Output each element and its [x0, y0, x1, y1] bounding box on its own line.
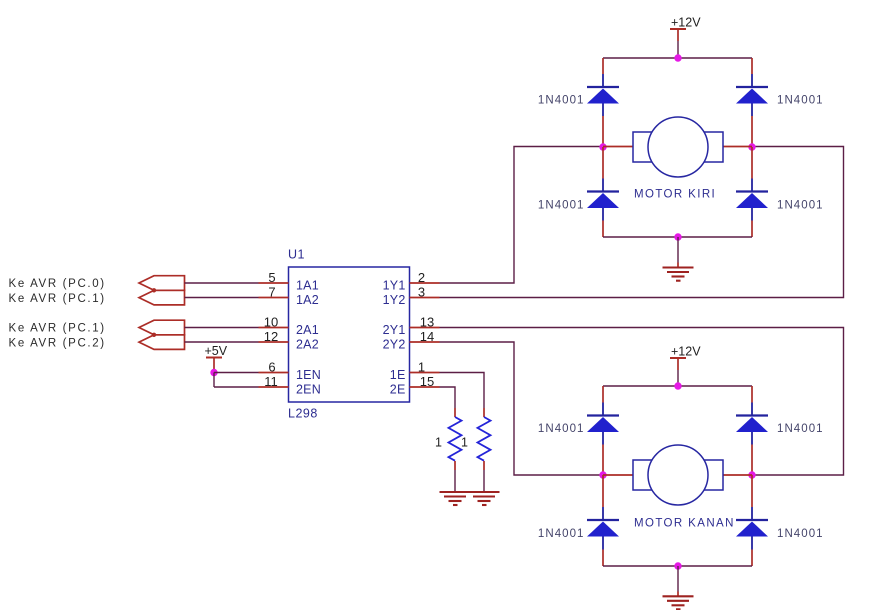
svg-text:Ke AVR (PC.2): Ke AVR (PC.2)	[9, 338, 106, 350]
svg-text:2E: 2E	[390, 383, 406, 397]
wire port to pin 7	[185, 297, 259, 299]
diode D2 1N4001 (kiri upper-right)	[736, 74, 824, 116]
wire bottom rail (kanan)	[603, 565, 752, 567]
wire bottom rail (kiri)	[603, 236, 752, 238]
resistor R1 value 1	[435, 408, 462, 470]
wire bottom rail to ground (kiri)	[677, 237, 679, 268]
wire pin 15 to resistor R1	[440, 387, 456, 408]
port arrow Ke AVR (PC.2)	[139, 335, 185, 350]
wire R1 to ground	[454, 470, 456, 492]
wire rail to D6 (kanan upper-right)	[751, 386, 753, 403]
svg-text:14: 14	[420, 329, 434, 344]
svg-text:15: 15	[420, 374, 434, 389]
svg-text:Ke AVR (PC.1): Ke AVR (PC.1)	[9, 323, 106, 335]
wire left motor node to D7 (kanan lower-left)	[602, 475, 604, 507]
svg-text:3: 3	[418, 285, 425, 300]
svg-text:MOTOR KIRI: MOTOR KIRI	[634, 189, 716, 201]
ground (kanan)	[663, 596, 694, 609]
svg-text:1Y2: 1Y2	[383, 293, 406, 307]
svg-text:2Y2: 2Y2	[383, 338, 406, 352]
wire node to motor left terminal (kiri)	[603, 146, 633, 148]
pin 6 (1EN) stub	[259, 360, 321, 383]
svg-text:2EN: 2EN	[296, 383, 321, 397]
svg-text:6: 6	[268, 360, 275, 375]
diode D7 1N4001 (kanan lower-left)	[538, 507, 619, 550]
port arrow Ke AVR (PC.1)	[139, 290, 185, 305]
svg-text:1EN: 1EN	[296, 368, 321, 382]
svg-text:2A2: 2A2	[296, 338, 319, 352]
junction node top rail (kanan)	[674, 382, 681, 389]
wire D7 to bottom rail (kanan)	[602, 550, 604, 567]
junction node bottom rail (kiri)	[674, 233, 681, 240]
pin 7 (1A2) stub	[259, 285, 319, 308]
svg-text:1N4001: 1N4001	[777, 200, 824, 212]
junction dot arrow pair 1	[152, 288, 156, 292]
junction node +5V	[210, 369, 217, 376]
wire node to motor left terminal (kanan)	[603, 474, 633, 476]
wire D1 to left motor node	[602, 116, 604, 147]
svg-text:11: 11	[264, 374, 278, 389]
wire +5V down	[213, 373, 215, 388]
wire port to pin 10	[185, 327, 259, 329]
wire D3 to bottom rail (kiri)	[602, 221, 604, 238]
wire top rail (kanan)	[603, 385, 752, 387]
svg-text:Ke AVR (PC.0): Ke AVR (PC.0)	[9, 278, 106, 290]
wire right motor node to D4 (kiri lower-right)	[751, 147, 753, 179]
svg-text:13: 13	[420, 315, 434, 330]
power +12V symbol (kiri)	[670, 16, 701, 42]
svg-text:1: 1	[418, 360, 425, 375]
junction node bottom rail (kanan)	[674, 562, 681, 569]
svg-text:+12V: +12V	[671, 345, 701, 359]
svg-text:1N4001: 1N4001	[538, 528, 585, 540]
wire +12V to top rail (kanan)	[677, 370, 679, 386]
svg-text:7: 7	[268, 285, 275, 300]
wire port to pin 5	[185, 282, 259, 284]
svg-text:1N4001: 1N4001	[538, 200, 585, 212]
svg-text:1A1: 1A1	[296, 279, 319, 293]
svg-text:Ke AVR (PC.1): Ke AVR (PC.1)	[9, 293, 106, 305]
svg-text:1: 1	[461, 436, 468, 450]
diode D1 1N4001 (kiri upper-left)	[538, 74, 619, 116]
svg-text:2Y1: 2Y1	[383, 323, 406, 337]
junction node right motor (kiri)	[748, 143, 755, 150]
wire D6 to right motor node (kanan)	[751, 445, 753, 476]
svg-text:2: 2	[418, 270, 425, 285]
motor MOTOR KANAN	[633, 445, 735, 530]
junction dot arrow pair 2	[152, 333, 156, 337]
wire +5V to pin 6	[214, 372, 259, 374]
wire rail to D1 (kiri upper-left)	[602, 58, 604, 74]
wire right motor node to D8 (kanan lower-right)	[751, 475, 753, 507]
svg-text:1N4001: 1N4001	[538, 95, 585, 107]
svg-text:1N4001: 1N4001	[538, 423, 585, 435]
wire +5V to pin 11	[214, 386, 259, 388]
ground (kiri)	[663, 268, 694, 281]
svg-text:12: 12	[264, 329, 278, 344]
wire pin 3 to right motor node	[440, 147, 844, 298]
port arrow Ke AVR (PC.0)	[139, 276, 185, 291]
power +5V symbol	[205, 344, 228, 373]
svg-text:1E: 1E	[390, 368, 406, 382]
svg-text:1N4001: 1N4001	[777, 95, 824, 107]
pin 1 (1E) stub	[390, 360, 440, 383]
port arrow Ke AVR (PC.1) lower	[139, 320, 185, 335]
svg-text:+12V: +12V	[671, 16, 701, 30]
pin 13 (2Y1) stub	[383, 315, 440, 338]
IC U1 L298 body	[289, 267, 410, 402]
svg-text:1: 1	[435, 436, 442, 450]
wire D8 to bottom rail (kanan)	[751, 550, 753, 567]
wire bottom rail to ground (kanan)	[677, 566, 679, 596]
wire D5 to left motor node (kanan)	[602, 445, 604, 476]
pin 15 (2E) stub	[390, 374, 440, 397]
svg-text:5: 5	[268, 270, 275, 285]
pin 2 (1Y1) stub	[383, 270, 440, 293]
diode D5 1N4001 (kanan upper-left)	[538, 403, 619, 445]
junction node right motor (kanan)	[748, 471, 755, 478]
wire pin 14 to left motor node (kanan)	[440, 342, 604, 475]
resistor R2 value 1	[461, 408, 491, 470]
wire pin 1 to resistor R2	[440, 373, 485, 409]
pin 3 (1Y2) stub	[383, 285, 440, 308]
svg-text:U1: U1	[288, 248, 305, 262]
svg-text:+5V: +5V	[205, 344, 228, 358]
diode D6 1N4001 (kanan upper-right)	[736, 403, 824, 445]
wire motor right terminal to node (kiri)	[723, 146, 752, 148]
svg-text:1N4001: 1N4001	[777, 423, 824, 435]
svg-text:1N4001: 1N4001	[777, 528, 824, 540]
wire D4 to bottom rail (kiri)	[751, 221, 753, 238]
wire port to pin 12	[185, 341, 259, 343]
pin 12 (2A2) stub	[259, 329, 319, 352]
pin 11 (2EN) stub	[259, 374, 321, 397]
wire D2 to right motor node	[751, 116, 753, 147]
ground under R1	[440, 492, 471, 505]
wire rail to D5 (kanan upper-left)	[602, 386, 604, 403]
wire motor right terminal to node (kanan)	[723, 474, 752, 476]
junction node left motor (kiri)	[599, 143, 606, 150]
power +12V symbol (kanan)	[670, 345, 701, 371]
pin 10 (2A1) stub	[259, 315, 319, 338]
wire pin 13 to right motor node (kanan)	[440, 328, 844, 476]
svg-text:2A1: 2A1	[296, 323, 319, 337]
svg-text:1A2: 1A2	[296, 293, 319, 307]
ground under R2	[469, 492, 500, 505]
svg-text:MOTOR KANAN: MOTOR KANAN	[634, 518, 735, 530]
wire top rail (kiri)	[603, 57, 752, 59]
svg-text:1Y1: 1Y1	[383, 279, 406, 293]
pin 14 (2Y2) stub	[383, 329, 440, 352]
svg-text:L298: L298	[288, 407, 318, 421]
wire rail to D2 (kiri upper-right)	[751, 58, 753, 74]
wire +12V to top rail (kiri)	[677, 41, 679, 58]
diode D8 1N4001 (kanan lower-right)	[736, 507, 824, 550]
motor MOTOR KIRI	[633, 117, 723, 201]
junction node top rail (kiri)	[674, 54, 681, 61]
svg-text:10: 10	[264, 315, 278, 330]
pin 5 (1A1) stub	[259, 270, 319, 293]
junction node left motor (kanan)	[599, 471, 606, 478]
wire left motor node to D3 (kiri lower-left)	[602, 147, 604, 179]
diode D3 1N4001 (kiri lower-left)	[538, 179, 619, 221]
wire pin 2 to left motor node	[440, 147, 604, 284]
diode D4 1N4001 (kiri lower-right)	[736, 179, 824, 221]
wire R2 to ground	[483, 470, 485, 492]
